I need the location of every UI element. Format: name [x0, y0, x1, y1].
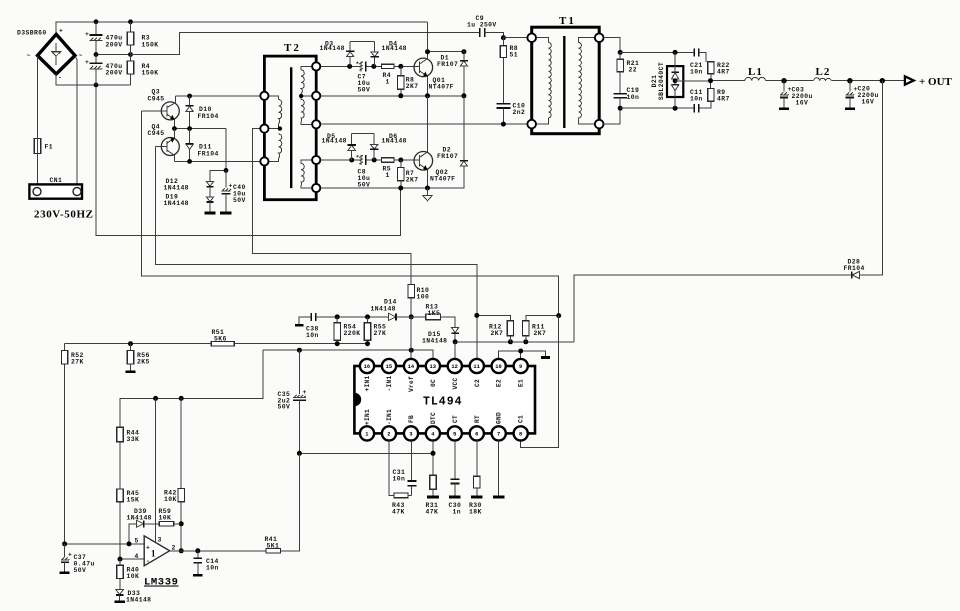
svg-text:5K6: 5K6	[214, 335, 227, 342]
svg-text:150K: 150K	[142, 70, 159, 77]
wire D28 to VCC rail	[574, 275, 852, 342]
wire bridge right to CN1	[75, 57, 77, 185]
svg-text:1: 1	[386, 78, 390, 85]
resistor R22 4R7	[708, 62, 730, 81]
capacitor C30 1n (pin5)	[449, 441, 462, 516]
fuse F1	[34, 57, 53, 185]
svg-text:1N4148: 1N4148	[127, 515, 152, 522]
capacitor C1a 470u 200V	[85, 22, 122, 55]
capacitor C19 10n	[613, 87, 639, 108]
svg-text:10n: 10n	[306, 332, 319, 339]
wire C35 to pin4 DTC rail	[297, 441, 436, 476]
svg-text:150K: 150K	[142, 41, 159, 48]
wire left supply rail with R51	[65, 341, 370, 346]
svg-text:VCC: VCC	[452, 377, 459, 389]
svg-text:L1: L1	[748, 66, 763, 78]
svg-text:2K7: 2K7	[534, 330, 547, 337]
svg-text:T1: T1	[559, 15, 576, 27]
svg-text:10n: 10n	[690, 96, 703, 103]
output arrow	[905, 76, 914, 84]
diode D19 1N4148	[164, 193, 214, 212]
resistor R12 2K7	[474, 313, 513, 342]
bridge rectifier D3SBR60	[17, 28, 83, 82]
svg-text:50V: 50V	[358, 181, 371, 188]
capacitor C37 0.47u 50V	[60, 544, 95, 574]
svg-text:51: 51	[510, 51, 518, 58]
wire step from mid rail to C9	[131, 32, 480, 54]
node D14 line junctions	[335, 314, 414, 319]
svg-text:~: ~	[79, 53, 83, 60]
svg-text:50V: 50V	[233, 197, 246, 204]
svg-text:11: 11	[473, 364, 479, 370]
resistor R44 33K	[117, 427, 139, 489]
svg-text:2K7: 2K7	[491, 330, 504, 337]
wire T1 secondary top	[604, 38, 623, 55]
svg-text:D21: D21	[651, 75, 658, 88]
resistor R21 22	[617, 52, 639, 93]
svg-text:200V: 200V	[106, 41, 123, 48]
wire D3-D4 top link	[350, 40, 374, 42]
svg-text:47K: 47K	[392, 509, 405, 516]
wire LM339 +input line	[62, 541, 144, 546]
svg-text:16: 16	[364, 364, 370, 370]
T2 right winding	[299, 66, 313, 188]
svg-text:6: 6	[475, 432, 478, 438]
diode D11 FR104	[186, 129, 219, 162]
svg-text:+: +	[85, 31, 89, 38]
svg-text:TL494: TL494	[423, 395, 463, 408]
svg-text:10n: 10n	[627, 94, 640, 101]
TL494 bottom pin labels	[364, 409, 525, 425]
svg-text:LM339: LM339	[144, 577, 179, 589]
diode D39 1N4148	[127, 508, 160, 544]
svg-text:200V: 200V	[106, 70, 123, 77]
diode D4 1N4148	[370, 40, 407, 66]
svg-text:4R7: 4R7	[717, 69, 730, 76]
svg-text:SBL2040CT: SBL2040CT	[658, 62, 665, 100]
svg-text:CN1: CN1	[50, 177, 63, 184]
resistor R55 27K	[364, 317, 386, 344]
svg-text:2K7: 2K7	[406, 83, 419, 90]
svg-text:1N4148: 1N4148	[320, 45, 345, 52]
wire secondary top line to D21/C21	[620, 50, 694, 55]
svg-text:Vref: Vref	[408, 376, 415, 392]
svg-text:5K1: 5K1	[267, 543, 280, 550]
capacitor C31 10n + pin3	[393, 441, 417, 496]
svg-text:E2: E2	[496, 379, 503, 387]
resistor R51 5K6	[211, 329, 234, 346]
ground bar under D19	[204, 212, 215, 215]
wire Q01 emitter rail	[320, 93, 466, 98]
svg-text:9: 9	[519, 364, 522, 370]
resistor R4 1	[382, 64, 395, 85]
resistor R41 5K1	[265, 536, 281, 553]
transistor Q01 NT407F	[414, 52, 454, 96]
node C9/T1/R8 junction	[501, 35, 528, 40]
svg-text:100: 100	[417, 294, 430, 301]
svg-text:1N4148: 1N4148	[164, 185, 189, 192]
svg-text:1N4148: 1N4148	[382, 138, 407, 145]
wire Q3 collector rail to T2	[176, 94, 261, 99]
wire Q4 emitter rail to T2	[174, 159, 260, 164]
IC TL494	[354, 366, 535, 433]
T1 left winding	[536, 38, 551, 124]
svg-text:50V: 50V	[278, 404, 291, 411]
svg-text:22: 22	[629, 66, 637, 73]
svg-text:1: 1	[151, 549, 156, 559]
svg-text:50V: 50V	[74, 567, 87, 574]
T2 left winding	[268, 96, 282, 162]
svg-text:-: -	[58, 75, 62, 82]
svg-text:F1: F1	[45, 144, 53, 151]
svg-text:-: -	[146, 558, 150, 565]
capacitor C9 1u 250V	[467, 15, 503, 38]
svg-text:C945: C945	[148, 130, 165, 137]
wire top positive rail	[56, 22, 427, 35]
wire Vref to LM339 pin3	[155, 398, 157, 542]
wire secondary bottom rail T2 to T1	[320, 122, 527, 127]
wire pin7 GND to bar	[493, 441, 504, 497]
resistor R59 10K	[159, 508, 182, 526]
resistor R3 150K	[127, 22, 158, 55]
svg-text:12: 12	[451, 364, 457, 370]
diode D10 FR104	[186, 96, 219, 129]
svg-text:27K: 27K	[71, 359, 84, 366]
svg-text:3: 3	[409, 432, 412, 438]
label 230V-50HZ	[34, 209, 94, 221]
resistor R52 27K	[61, 344, 83, 544]
svg-text:+: +	[68, 551, 72, 558]
resistor R11 2K7	[523, 313, 562, 342]
diode D15 1N4148	[422, 327, 459, 344]
svg-text:10n: 10n	[393, 475, 406, 482]
diode D1 FR107	[437, 52, 468, 96]
svg-text:+ OUT: + OUT	[919, 76, 953, 88]
svg-text:+: +	[229, 182, 233, 189]
TL494 top pin labels	[364, 375, 525, 392]
svg-text:L2: L2	[816, 66, 831, 78]
wire T2 center tap feed to R10	[253, 129, 412, 285]
capacitor C20 2200u 16V	[845, 81, 879, 109]
transistor Q4 C945	[148, 123, 180, 161]
wire Vref line to pins 14/13	[263, 317, 433, 359]
resistor R9 4R7	[699, 81, 730, 109]
svg-text:18K: 18K	[469, 509, 482, 516]
transistor Q02 NT407F	[414, 96, 455, 188]
wire secondary bottom line to D21/C11	[620, 106, 694, 111]
resistor R8 2K7	[398, 66, 419, 95]
svg-text:1N4148: 1N4148	[322, 138, 347, 145]
wire bridge negative to rail	[56, 74, 130, 85]
svg-text:DTC: DTC	[430, 412, 437, 424]
svg-text:10: 10	[495, 364, 501, 370]
svg-text:+IN1: +IN1	[364, 409, 371, 425]
resistor R30 18K (pin6)	[469, 441, 482, 516]
resistor R7 2K7	[398, 160, 419, 188]
svg-text:NT407F: NT407F	[429, 84, 454, 91]
rectifier D21 SBL2040CT	[651, 52, 711, 108]
svg-text:14: 14	[408, 364, 415, 370]
svg-text:RT: RT	[474, 415, 481, 423]
wire Q3 base drop	[142, 111, 559, 316]
wire LM339 output	[170, 453, 300, 553]
wire Q02 base rail	[320, 158, 419, 163]
svg-text:1: 1	[386, 172, 390, 179]
op-amp LM339	[135, 536, 179, 589]
svg-text:7: 7	[497, 432, 500, 438]
wire T1 secondary bottom	[604, 106, 623, 124]
svg-text:10K: 10K	[127, 573, 140, 580]
inductor L1	[745, 66, 766, 81]
label + OUT	[919, 76, 953, 88]
transistor Q3 C945	[142, 89, 180, 129]
svg-text:T2: T2	[284, 42, 301, 54]
svg-text:220K: 220K	[344, 330, 361, 337]
svg-text:1: 1	[365, 432, 368, 438]
capacitor C1b 470u 200V	[85, 55, 122, 85]
resistor R42 10K	[164, 398, 184, 553]
capacitor C10 2n2	[497, 102, 526, 124]
svg-text:CT: CT	[452, 415, 459, 423]
svg-text:15K: 15K	[127, 497, 140, 504]
svg-text:GND: GND	[496, 412, 503, 424]
svg-text:1N4148: 1N4148	[126, 597, 151, 604]
wire Q02 emitter rail	[320, 166, 464, 190]
TL494 pins 1-8	[360, 426, 528, 440]
svg-text:2: 2	[387, 432, 390, 438]
diode D33 1N4148	[114, 590, 151, 604]
svg-text:1N4148: 1N4148	[382, 45, 407, 52]
svg-text:3: 3	[158, 537, 162, 544]
svg-text:5: 5	[453, 432, 456, 438]
ground stub left of C38	[295, 317, 312, 325]
node top rail junction at C-bank	[94, 19, 133, 24]
svg-text:47K: 47K	[426, 509, 439, 516]
svg-text:15: 15	[386, 364, 392, 370]
svg-text:33K: 33K	[127, 436, 140, 443]
resistor R54 220K	[334, 317, 360, 344]
diode D2 FR107	[437, 96, 468, 188]
wire Q01 collector rail	[425, 22, 466, 54]
svg-text:C1: C1	[518, 415, 525, 423]
T1 right winding	[579, 38, 595, 124]
svg-text:0C: 0C	[430, 379, 437, 387]
capacitor C7 10u 50V	[356, 61, 371, 94]
svg-text:1u 250V: 1u 250V	[467, 22, 497, 29]
svg-text:~: ~	[27, 53, 31, 60]
svg-text:1K5: 1K5	[428, 310, 441, 317]
wire output feedback to D28	[860, 81, 883, 275]
svg-text:1N4148: 1N4148	[371, 305, 396, 312]
wire VCC to pin12	[454, 342, 456, 359]
wire pin2 to R43	[389, 441, 394, 496]
svg-text:-IN1: -IN1	[386, 375, 393, 391]
svg-text:FR104: FR104	[844, 265, 865, 272]
resistor R40 10K	[117, 559, 139, 589]
svg-text:1n: 1n	[453, 509, 461, 516]
svg-text:2K7: 2K7	[406, 176, 419, 183]
resistor R4 150K	[127, 55, 158, 85]
ground symbol Q02 emitter	[423, 188, 432, 201]
resistor R13 1K5	[426, 303, 456, 327]
capacitor C21 10n	[690, 48, 706, 75]
diode D28 FR104	[844, 258, 865, 278]
wire pins 10/9 ground tie	[499, 349, 550, 360]
wire mid-rail drop to D12/C40	[210, 129, 228, 182]
svg-text:E1: E1	[518, 379, 525, 387]
svg-text:4: 4	[135, 553, 139, 560]
svg-text:10K: 10K	[159, 515, 172, 522]
resistor R8 51	[500, 38, 518, 104]
inductor L2	[814, 66, 832, 81]
svg-text:+IN1: +IN1	[364, 375, 371, 391]
resistor R5 1	[382, 158, 395, 179]
T1 terminals	[527, 33, 603, 128]
capacitor C38 10n	[306, 313, 388, 339]
node mid rail	[94, 52, 133, 57]
svg-text:5: 5	[135, 538, 139, 545]
capacitor C14 10n	[193, 551, 219, 575]
svg-text:+: +	[85, 59, 89, 66]
T2 terminals right	[312, 62, 320, 192]
svg-text:FR107: FR107	[437, 61, 458, 68]
transformer T1	[532, 15, 600, 134]
resistor R45 15K	[117, 489, 139, 559]
wire Q3/Q4 mid rail	[172, 126, 226, 131]
wire output rail	[708, 78, 905, 83]
svg-text:10n: 10n	[690, 69, 703, 76]
svg-text:1N4148: 1N4148	[422, 337, 447, 344]
svg-text:NT407F: NT407F	[430, 175, 455, 182]
svg-text:+: +	[59, 28, 63, 35]
resistor R31 47K	[426, 475, 440, 516]
diode D14 1N4148	[371, 299, 426, 321]
svg-text:16V: 16V	[862, 99, 875, 106]
capacitor C03 2200u 16V	[779, 81, 813, 109]
connector CN1	[29, 177, 82, 199]
capacitor C11 10n	[690, 89, 703, 112]
wire LM339 -input line	[118, 557, 145, 562]
svg-text:10n: 10n	[206, 565, 219, 572]
svg-text:C2: C2	[474, 379, 481, 387]
svg-text:D3SBR60: D3SBR60	[17, 30, 47, 37]
svg-text:230V-50HZ: 230V-50HZ	[34, 209, 94, 221]
svg-text:+: +	[146, 544, 150, 551]
svg-text:2n2: 2n2	[513, 109, 526, 116]
wire pin8 C1 connection	[521, 316, 559, 448]
wire Q4 base drop to TL494 C2	[155, 147, 476, 360]
TL494 pins 16-9	[360, 359, 528, 373]
svg-text:*: *	[356, 61, 360, 68]
capacitor C35 2u2 50V	[278, 350, 307, 453]
svg-text:FR104: FR104	[198, 150, 219, 157]
svg-text:1N4148: 1N4148	[164, 200, 189, 207]
svg-text:27K: 27K	[374, 330, 387, 337]
transformer T2	[264, 42, 316, 200]
wire negative vertical + primary ground return	[94, 83, 401, 236]
wire Vref drop to lower rail	[120, 350, 263, 427]
svg-text:13: 13	[430, 364, 436, 370]
svg-text:4R7: 4R7	[717, 96, 730, 103]
capacitor C40 10u 50V	[221, 170, 245, 211]
svg-text:8: 8	[519, 432, 522, 438]
resistor R10 100	[408, 285, 429, 317]
svg-text:-IN1: -IN1	[386, 409, 393, 425]
resistor R43 47K	[392, 493, 412, 516]
diode D12 1N4148	[164, 178, 214, 197]
diode D5 1N4148	[322, 133, 356, 160]
wire Q01 base rail	[320, 64, 419, 69]
capacitor C8 10u 50V	[356, 154, 371, 188]
svg-text:FB: FB	[408, 415, 415, 423]
diode D3 1N4148	[320, 40, 355, 66]
svg-text:*: *	[356, 154, 360, 161]
wire VCC rail	[453, 339, 575, 344]
svg-text:2K5: 2K5	[137, 359, 150, 366]
diode D6 1N4148	[370, 133, 407, 160]
svg-text:10K: 10K	[164, 496, 177, 503]
T2 terminals left	[260, 92, 268, 166]
svg-text:FR107: FR107	[437, 153, 458, 160]
resistor R56 2K5	[126, 344, 150, 372]
svg-text:16V: 16V	[796, 100, 809, 107]
ground bar under C40	[220, 212, 231, 215]
svg-text:C945: C945	[148, 96, 165, 103]
svg-text:50V: 50V	[358, 86, 371, 93]
wire D5-D6 top link	[352, 132, 375, 134]
svg-text:FR104: FR104	[198, 113, 219, 120]
